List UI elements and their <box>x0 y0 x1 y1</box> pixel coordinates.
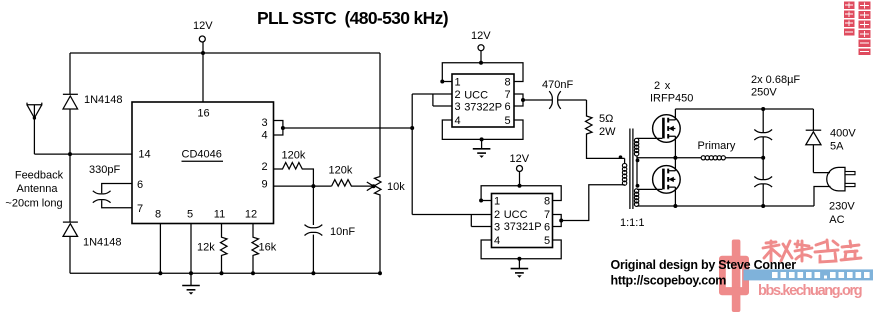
svg-text:37322P: 37322P <box>464 102 502 114</box>
node T1 secondary dots <box>636 159 640 188</box>
node U2 12V junction <box>479 61 483 65</box>
svg-text:7: 7 <box>504 89 510 101</box>
wire feedback node to CD4046 pin 14 <box>34 153 132 155</box>
resistor R2 120k (to pot wiper) <box>332 180 374 187</box>
diode D1 1N4148 (top clamp) <box>63 94 78 154</box>
wire center tap to midpoint <box>637 157 675 159</box>
svg-text:10nF: 10nF <box>330 226 355 238</box>
svg-text:120k: 120k <box>329 165 353 177</box>
svg-text:5A: 5A <box>830 141 844 153</box>
resistor R4 16k (pin 12) <box>252 224 259 274</box>
wire U2 top bracket pins 1,8 <box>442 63 523 82</box>
capacitor C2 10nF <box>305 186 323 273</box>
svg-text:12k: 12k <box>197 242 215 254</box>
wire CD4046 pin 8 <box>159 224 161 274</box>
svg-text:8: 8 <box>544 196 550 208</box>
transistor Q2 IRFP450 <box>653 158 681 206</box>
ground G1 <box>182 273 200 294</box>
svg-text:12V: 12V <box>193 20 213 32</box>
wire gate drive Q2 <box>637 188 662 190</box>
svg-text:9: 9 <box>261 179 267 191</box>
label 2x 0.68uF 250V <box>751 74 800 99</box>
transformer T1 core <box>630 129 633 210</box>
svg-text:AC: AC <box>829 214 844 226</box>
svg-text:12: 12 <box>245 209 257 221</box>
capacitor C4 0.68uF (top) <box>754 109 772 158</box>
svg-text:5Ω: 5Ω <box>599 113 613 125</box>
node rail dots <box>158 271 382 275</box>
diode D2 1N4148 (bottom clamp) <box>63 154 78 273</box>
svg-text:1: 1 <box>494 196 500 208</box>
label 400V 5A <box>830 128 856 153</box>
svg-text:3: 3 <box>261 117 267 129</box>
svg-text:5: 5 <box>504 115 510 127</box>
svg-text:250V: 250V <box>751 87 777 99</box>
ground G3 <box>511 259 529 278</box>
node Q2 source rail dot <box>673 204 677 208</box>
node U3 12V junction <box>518 184 522 188</box>
node caps column dots <box>761 107 765 208</box>
label 230V AC <box>829 200 855 226</box>
node U3 pin1 junction <box>479 199 483 203</box>
transformer T1 secondary windings <box>634 138 638 206</box>
svg-text:12V: 12V <box>510 153 530 165</box>
node U3 output dot <box>559 219 563 223</box>
wire 12V top rail <box>70 52 380 54</box>
svg-text:bbs.kechuang.org: bbs.kechuang.org <box>758 283 862 299</box>
wire U3 bottom bracket pins 4,5 <box>481 240 561 259</box>
node signal split dot <box>410 126 414 130</box>
svg-text:PLL SSTC (480-530 kHz): PLL SSTC (480-530 kHz) <box>257 8 448 28</box>
svg-text:400V: 400V <box>830 128 856 140</box>
svg-text:~20cm long: ~20cm long <box>5 198 62 210</box>
svg-text:4: 4 <box>261 130 267 142</box>
wire left rail drop to diode D1 <box>69 53 71 94</box>
antenna ANT1 <box>27 103 42 155</box>
svg-text:5: 5 <box>187 209 193 221</box>
svg-text:2x 0.68µF: 2x 0.68µF <box>751 74 800 86</box>
IC U2 UCC37322P <box>452 74 514 127</box>
svg-text:UCC: UCC <box>464 89 488 101</box>
diode D3 400V 5A <box>806 109 822 173</box>
wire U3 input <box>412 215 491 227</box>
svg-text:7: 7 <box>544 209 550 221</box>
svg-text:3: 3 <box>494 222 500 234</box>
wire U3 top bracket pins 1,8 <box>481 186 561 201</box>
transistor Q1 IRFP450 <box>653 109 681 158</box>
svg-text:12V: 12V <box>471 30 491 42</box>
wire U3 output bracket pins 7,6 <box>553 185 625 227</box>
wire output top rail <box>675 108 813 110</box>
svg-text:IRFP450: IRFP450 <box>650 93 693 105</box>
node T1 primary phase dot <box>619 155 623 159</box>
svg-text:CD4046: CD4046 <box>182 148 222 160</box>
svg-text:1N4148: 1N4148 <box>84 94 123 106</box>
svg-text:1:1:1: 1:1:1 <box>620 217 644 229</box>
svg-text:37321P: 37321P <box>504 221 542 233</box>
ground G2 <box>473 139 491 158</box>
node output bracket dot <box>281 126 285 130</box>
IC U3 UCC37321P <box>492 194 553 248</box>
transformer T1 GDT primary winding <box>622 158 626 185</box>
svg-text:470nF: 470nF <box>542 79 573 91</box>
label 2 x IRFP450 <box>650 80 693 105</box>
plug P1 mains <box>813 167 855 206</box>
capacitor C1 330pF bracket pins 6-7 <box>93 184 132 208</box>
svg-text:16k: 16k <box>259 242 277 254</box>
svg-text:5: 5 <box>544 235 550 247</box>
potentiometer VR1 10k wiper arrow <box>367 182 376 191</box>
svg-text:11: 11 <box>214 209 225 221</box>
wire CD4046 pin 5 <box>190 224 192 274</box>
watermark logo kechuang <box>719 240 749 313</box>
svg-text:Primary: Primary <box>698 140 736 152</box>
node midpoint dot <box>673 156 677 160</box>
svg-text:8: 8 <box>155 209 161 221</box>
wire gate drive Q1 <box>637 137 662 139</box>
capacitor C5 0.68uF (bottom) <box>754 158 772 206</box>
watermark top right strips <box>844 2 871 56</box>
supply terminal 12V (U2) <box>471 30 491 63</box>
wire input to U2 pins 2,3 <box>412 94 452 106</box>
svg-text:330pF: 330pF <box>89 164 120 176</box>
node U2 pin1 junction <box>440 80 444 84</box>
resistor R3 12k (pin 11) <box>221 224 228 274</box>
wire signal vertical to UCC inputs <box>411 94 413 215</box>
svg-text:14: 14 <box>138 149 150 161</box>
supply terminal 12V (U3) <box>510 153 530 186</box>
svg-text:2: 2 <box>454 89 460 101</box>
node U2 output dot <box>521 98 525 102</box>
resistor R5 5R 2W <box>586 100 625 158</box>
svg-text:2: 2 <box>261 161 267 173</box>
svg-text:Original design by Steve Conne: Original design by Steve Conner <box>611 258 797 272</box>
svg-text:1: 1 <box>454 77 460 89</box>
inductor L1 primary coil <box>675 156 763 160</box>
wire U2 bottom bracket pins 4,5 <box>442 120 523 139</box>
node feedback junction <box>68 152 72 156</box>
IC U1 CD4046 <box>132 102 274 224</box>
node filter junction <box>311 184 315 188</box>
wire output bottom rail <box>637 205 814 207</box>
svg-text:7: 7 <box>137 203 143 215</box>
svg-text:2: 2 <box>494 209 500 221</box>
watermark blue strip <box>744 269 873 280</box>
label 5 ohm 2W <box>599 113 616 138</box>
supply terminal 12V (CD4046 pin16) <box>193 20 213 102</box>
wire U2 output bracket pins 7,6 <box>514 94 552 106</box>
resistor R1 120k (pin 2) <box>274 163 314 187</box>
label Feedback Antenna ~20cm long <box>5 170 63 210</box>
wire CD4046 pins 3,4 output bracket <box>274 121 413 136</box>
node junction 12V rail / pin16 <box>201 51 205 55</box>
svg-text:6: 6 <box>137 179 143 191</box>
svg-text:120k: 120k <box>282 150 306 162</box>
svg-text:Feedback: Feedback <box>15 170 64 182</box>
potentiometer VR1 10k body <box>375 53 382 273</box>
svg-text:8: 8 <box>504 77 510 89</box>
wire pin 9 line <box>274 185 332 187</box>
svg-text:Antenna: Antenna <box>17 183 59 195</box>
svg-text:2 x: 2 x <box>654 80 671 92</box>
node U3 ground junction <box>517 257 521 261</box>
svg-text:1N4148: 1N4148 <box>83 237 122 249</box>
node U2 ground junction <box>480 137 484 141</box>
svg-text:16: 16 <box>197 108 209 120</box>
svg-text:4: 4 <box>454 115 460 127</box>
label credits <box>611 258 797 288</box>
watermark calligraphy kechuang forum <box>763 240 861 262</box>
svg-text:6: 6 <box>544 222 550 234</box>
svg-text:230V: 230V <box>829 200 855 212</box>
capacitor C3 470nF <box>549 91 586 109</box>
wire ground rail bottom <box>70 272 380 274</box>
svg-text:UCC: UCC <box>504 209 528 221</box>
svg-text:10k: 10k <box>387 181 405 193</box>
svg-text:http://scopeboy.com: http://scopeboy.com <box>611 274 727 288</box>
svg-text:3: 3 <box>454 101 460 113</box>
svg-text:2W: 2W <box>599 126 616 138</box>
svg-text:4: 4 <box>494 235 500 247</box>
svg-text:6: 6 <box>504 101 510 113</box>
